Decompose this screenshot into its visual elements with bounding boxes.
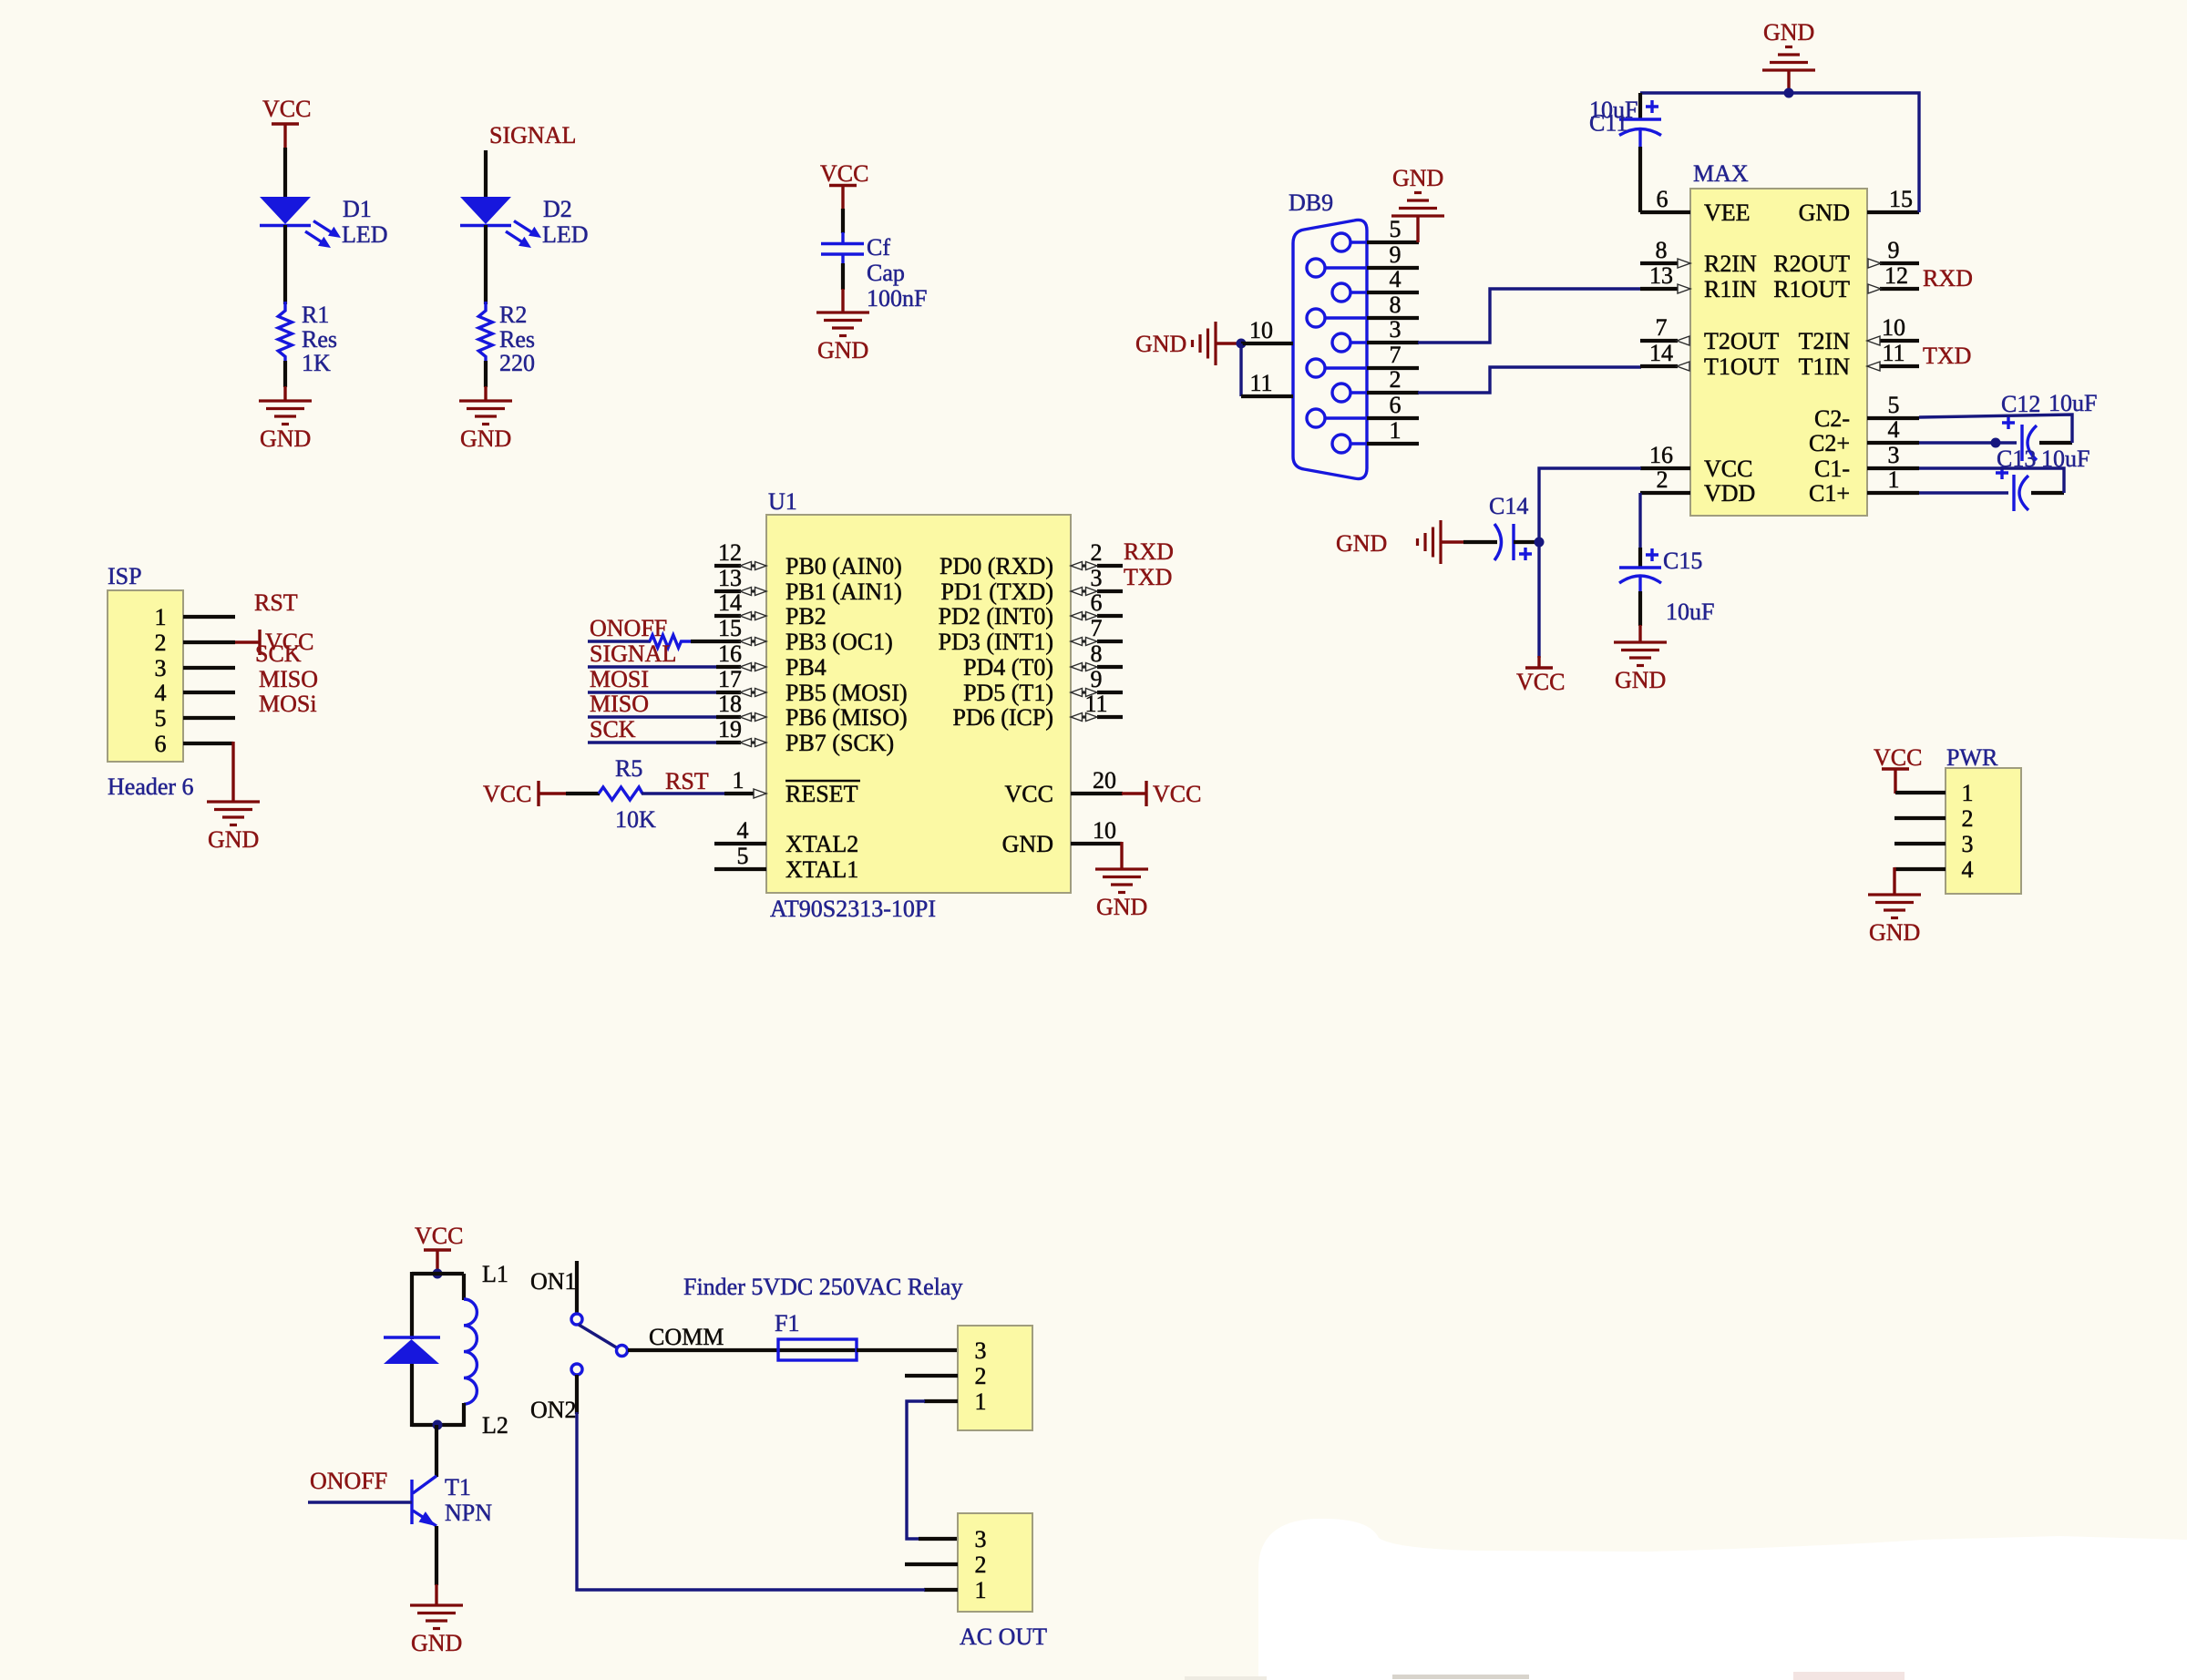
svg-text:GND: GND [1135,331,1186,357]
wire DB9 pin 3 to MAX pin 13 [1418,289,1641,343]
PWR pin 3 stub [1894,842,1946,845]
wire D1 to R1 [283,225,287,304]
svg-text:GND: GND [208,826,259,853]
svg-text:ON1: ON1 [530,1268,577,1295]
net RST wire to U1 pin 1 [642,767,766,798]
svg-text:COMM: COMM [649,1324,724,1350]
svg-text:PB7 (SCK): PB7 (SCK) [785,730,894,756]
pin 2 wire to power VCC [183,629,313,655]
svg-text:4: 4 [737,817,749,844]
svg-text:TXD: TXD [1124,564,1172,590]
wire T1 emitter to ground [435,1526,438,1605]
flyback diode [384,1272,440,1427]
capacitor C13 10uF across MAX pins 1-3 [1919,446,2089,511]
svg-text:7: 7 [1656,314,1668,341]
svg-text:L1: L1 [482,1261,508,1287]
svg-text:16: 16 [718,640,742,667]
ground GND (C15) [1614,642,1667,693]
ground GND above MAX [1762,19,1815,94]
svg-text:13: 13 [1649,262,1673,289]
svg-text:C13: C13 [1997,446,2036,472]
U1 pin 7 PD3 [939,615,1123,655]
svg-text:6: 6 [1091,589,1103,616]
node junction coil top [433,1269,443,1279]
svg-text:U1: U1 [768,488,797,515]
svg-text:2: 2 [1962,805,1974,832]
connector AC 1 [958,1326,1032,1430]
transistor T1 NPN [412,1474,492,1526]
wire R2 to GND [484,361,488,401]
U1 pin 5 XTAL1 [714,843,858,883]
svg-text:VCC: VCC [1704,456,1752,482]
svg-text:C1-: C1- [1814,456,1850,482]
svg-text:8: 8 [1091,640,1103,667]
resistor R5 10K [566,755,656,833]
DB9 pin hole circles [1307,233,1367,453]
capacitor C11 10uF [1589,93,1661,212]
svg-text:Header 6: Header 6 [108,773,194,800]
wire ON1 [575,1261,579,1313]
svg-text:PD2 (INT0): PD2 (INT0) [939,603,1053,630]
wire AC1 pin 1 to AC2 pin 3 [907,1401,925,1539]
wire ON2 to AC2 pin 1 [575,1375,579,1414]
svg-text:C2+: C2+ [1809,430,1850,456]
AC connector 2 pin 3 line [919,1537,958,1541]
U1 pin 20 VCC to power VCC [1005,767,1202,807]
svg-text:ISP: ISP [108,563,142,589]
ground GND (D1 chain) [259,401,312,452]
ground GND (D2 chain) [459,401,512,452]
svg-text:MOSI: MOSI [590,666,649,692]
svg-text:3: 3 [155,655,167,681]
switch contact ON2 [571,1364,582,1375]
U1 pin 18 PB6 / net MISO [588,691,908,731]
ground GND (PWR) [1868,895,1921,946]
svg-text:VCC: VCC [820,160,868,187]
node junction coil bottom [433,1420,443,1430]
wire R1 to GND [283,361,287,401]
power VCC (R5) [483,781,567,807]
svg-text:15: 15 [718,615,742,641]
capacitor Cf 100nF [821,232,927,312]
svg-text:9: 9 [1091,666,1103,692]
power VCC (MAX) [1516,656,1565,695]
PWR pin 2 stub [1894,816,1946,820]
svg-text:F1: F1 [775,1310,799,1337]
svg-text:T1IN: T1IN [1799,353,1851,380]
svg-text:220: 220 [499,350,535,376]
PWR pin 4 wire to ground [1894,867,1946,895]
svg-text:MISO: MISO [590,691,649,717]
node junction VCC net at C14 [1535,538,1545,548]
svg-text:PB2: PB2 [785,603,827,630]
DB9 pin 2 [1367,366,1419,393]
IC U1 AT90S2313-10PI body [766,488,1071,922]
U1 pin 2 PD0 / net RXD [939,538,1174,579]
wire COMM to fuse [628,1348,857,1352]
svg-text:LED: LED [542,221,589,248]
svg-text:VCC: VCC [1005,781,1053,807]
node junction DB9 shield [1237,339,1247,349]
svg-text:C15: C15 [1663,548,1702,574]
svg-text:XTAL2: XTAL2 [785,831,858,857]
svg-text:SCK: SCK [590,716,636,743]
U1 pin 15 PB3 / net ONOFF with series resistor [588,615,893,655]
svg-text:PWR: PWR [1946,744,1998,771]
svg-text:8: 8 [1656,237,1668,263]
svg-text:6: 6 [1390,392,1402,418]
svg-text:DB9: DB9 [1289,190,1333,216]
svg-text:MAX: MAX [1693,160,1749,187]
svg-text:PB3 (OC1): PB3 (OC1) [785,629,893,655]
svg-text:R2OUT: R2OUT [1773,251,1850,277]
power VCC (D1 chain) [262,96,311,149]
wire VCC to Cf [841,209,845,233]
svg-text:18: 18 [718,691,742,717]
svg-text:Cf: Cf [867,234,890,261]
svg-text:R5: R5 [615,755,642,782]
svg-text:T1OUT: T1OUT [1704,353,1779,380]
svg-text:T2IN: T2IN [1799,328,1851,354]
U1 pin 17 PB5 / net MOSI [588,666,908,706]
svg-text:9: 9 [1390,241,1402,268]
svg-text:1: 1 [975,1577,987,1603]
DB9 pin 4 [1367,266,1419,292]
U1 pin 9 PD5 [963,666,1123,706]
wire top rail C11 to MAX pin 15 [1640,93,1919,212]
svg-text:4: 4 [1962,856,1974,883]
svg-text:3: 3 [975,1526,987,1552]
capacitor C14 [1463,493,1542,560]
wire VCC to D1 [283,148,287,198]
svg-text:R1IN: R1IN [1704,276,1757,302]
svg-text:PB4: PB4 [785,654,827,681]
U1 pin 14 PB2 [714,589,827,630]
svg-text:GND: GND [1763,19,1814,46]
AC connector 2 pin 2 stub [905,1562,958,1566]
svg-text:12: 12 [1884,262,1908,289]
DB9 pin 1 [1367,417,1419,444]
PWR pin 1 wire from VCC [1895,791,1946,794]
svg-text:3: 3 [1888,442,1900,468]
svg-text:3: 3 [1091,565,1103,591]
inductor relay coil L1 L2 [464,1261,508,1439]
connector PWR [1946,744,2021,894]
DB9 pin 3 [1367,316,1419,343]
wire shield node down [1239,343,1242,396]
svg-text:C14: C14 [1489,493,1528,519]
svg-text:1K: 1K [302,350,331,376]
ground GND (ISP) [207,802,260,853]
svg-text:GND: GND [817,337,868,364]
svg-text:RESET: RESET [785,781,858,807]
svg-text:VEE: VEE [1704,200,1751,226]
svg-text:PD6 (ICP): PD6 (ICP) [952,704,1053,731]
svg-text:PD5 (T1): PD5 (T1) [963,680,1053,706]
wire coil bottom to T1 collector [435,1425,438,1477]
svg-text:Res: Res [302,326,337,353]
pin 3 wire SCK [183,640,302,668]
U1 pin 16 PB4 / net SIGNAL [588,640,827,681]
svg-text:10: 10 [1882,314,1905,341]
svg-text:Cap: Cap [867,260,905,286]
capacitor C12 10uF across MAX pins 4-5 [1919,390,2097,461]
node junction C12 [1991,438,2001,448]
U1 pin 10 GND to ground [1002,817,1122,869]
svg-text:PD0 (RXD): PD0 (RXD) [939,553,1053,579]
DB9 pin 6 [1367,392,1419,418]
capacitor C15 10uF [1619,548,1714,642]
svg-text:PB0 (AIN0): PB0 (AIN0) [785,553,902,579]
connector AC 2 (AC OUT) [958,1513,1047,1650]
MAX pin 16 VCC [1640,442,1752,482]
pin 4 wire MISO [183,666,318,692]
svg-text:11: 11 [1249,370,1272,396]
svg-text:PD3 (INT1): PD3 (INT1) [939,629,1053,655]
MAX pin 3 C1- [1814,442,1919,482]
svg-text:10uF: 10uF [2048,390,2097,416]
svg-text:MISO: MISO [259,666,318,692]
MAX pin 7 T2OUT [1640,314,1779,354]
connector DB9 body [1289,190,1367,479]
svg-text:4: 4 [1390,266,1402,292]
svg-text:1: 1 [733,767,744,794]
svg-text:11: 11 [1882,340,1905,366]
wire MAX pin 2 down to C15 [1638,493,1641,548]
power VCC (PWR) [1874,744,1922,794]
svg-text:T1: T1 [445,1474,471,1501]
svg-text:PD4 (T0): PD4 (T0) [963,654,1053,681]
svg-text:PB6 (MISO): PB6 (MISO) [785,704,908,731]
wire SIGNAL to D2 [484,150,488,198]
svg-text:20: 20 [1093,767,1116,794]
svg-text:4: 4 [155,680,167,706]
U1 pin 11 PD6 [952,691,1123,731]
switch contact ON1 [571,1314,582,1325]
wire D2 to R2 [484,225,488,304]
svg-text:1: 1 [1962,780,1974,806]
DB9 pin 10 shield wire [1241,317,1293,343]
ground GND (T1) [410,1605,463,1656]
svg-text:RST: RST [665,768,709,794]
net label ONOFF with wire to T1 base [308,1468,412,1502]
U1 pin 6 PD2 [939,589,1123,630]
svg-text:R2: R2 [499,302,527,328]
svg-text:GND: GND [411,1630,462,1656]
svg-text:GND: GND [1336,530,1387,557]
LED D2 [460,196,589,248]
svg-text:5: 5 [1390,216,1402,242]
svg-text:VCC: VCC [415,1223,463,1249]
svg-text:1: 1 [155,604,167,630]
U1 pin 12 PB0 [714,539,902,579]
svg-text:2: 2 [155,630,167,656]
resistor R1 1K [278,302,337,376]
svg-text:17: 17 [718,666,742,692]
MAX pin 12 R1OUT / net RXD [1773,262,1973,302]
svg-text:3: 3 [1390,316,1402,343]
svg-text:SCK: SCK [255,640,302,667]
DB9 pin 5 [1367,216,1419,242]
MAX pin 4 C2+ [1809,416,1919,456]
svg-text:TXD: TXD [1923,343,1971,369]
wire coil bottom rail [412,1423,464,1427]
svg-text:Finder 5VDC 250VAC Relay: Finder 5VDC 250VAC Relay [683,1274,962,1300]
svg-text:15: 15 [1889,186,1913,212]
ground GND above DB9 pin 5 [1391,165,1444,242]
svg-text:RXD: RXD [1124,538,1174,565]
svg-text:C11: C11 [1589,110,1627,137]
svg-text:14: 14 [718,589,742,616]
IC MAX body [1690,160,1867,516]
svg-text:7: 7 [1091,615,1103,641]
wire VCC net to MAX pin 16 [1539,468,1641,658]
svg-text:10: 10 [1093,817,1116,844]
svg-text:ONOFF: ONOFF [590,615,667,641]
switch lever [579,1325,618,1348]
svg-text:C12: C12 [2001,391,2040,417]
svg-text:VCC: VCC [1153,781,1201,807]
svg-text:GND: GND [1096,894,1147,920]
ground GND (C14) [1336,520,1464,564]
svg-text:VCC: VCC [1874,744,1922,771]
MAX pin 11 T1IN / net TXD [1799,340,1972,380]
svg-text:SIGNAL: SIGNAL [590,640,676,667]
U1 pin 19 PB7 / net SCK [588,716,894,756]
svg-text:T2OUT: T2OUT [1704,328,1779,354]
faint scan remnants bottom edge [1185,1672,1905,1680]
svg-text:2: 2 [1390,366,1402,393]
svg-text:12: 12 [718,539,742,566]
pin 6 wire to ground [183,742,233,802]
LED D1 [260,196,388,248]
svg-text:Res: Res [499,326,535,353]
svg-text:11: 11 [1084,691,1107,717]
svg-text:19: 19 [718,716,742,743]
svg-text:RST: RST [254,589,298,616]
svg-text:1: 1 [975,1388,987,1415]
DB9 pin 11 shield wire [1241,370,1293,396]
svg-text:GND: GND [1615,667,1666,693]
U1 pin 4 XTAL2 [714,817,858,857]
svg-text:PB1 (AIN1): PB1 (AIN1) [785,579,902,605]
svg-text:3: 3 [1962,831,1974,857]
svg-text:SIGNAL: SIGNAL [489,122,576,149]
ground GND (U1) [1095,869,1148,920]
U1 pin 3 PD1 / net TXD [941,564,1173,605]
svg-text:ONOFF: ONOFF [310,1468,387,1494]
DB9 pin 7 [1367,342,1419,368]
svg-text:PB5 (MOSI): PB5 (MOSI) [785,680,908,706]
svg-text:2: 2 [1657,466,1668,493]
MAX pin 9 R2OUT [1773,237,1919,277]
svg-text:R2IN: R2IN [1704,251,1757,277]
power VCC (Cf) [820,160,868,210]
svg-text:LED: LED [342,221,388,248]
pin 1 wire RST [183,589,298,617]
svg-text:3: 3 [975,1337,987,1364]
svg-text:GND: GND [260,425,311,452]
ground GND at DB9 shield [1135,322,1242,365]
AC connector 2 pin 1 line [924,1588,958,1592]
svg-text:5: 5 [1888,392,1900,418]
svg-text:GND: GND [1392,165,1443,191]
wire Cf to GND [841,263,845,312]
power VCC (relay) [415,1223,463,1274]
svg-text:2: 2 [975,1363,987,1389]
AC connector 1 pin 1 line [924,1399,958,1403]
svg-text:C2-: C2- [1814,405,1850,432]
svg-text:2: 2 [1091,539,1103,566]
svg-text:VCC: VCC [1516,669,1565,695]
svg-text:5: 5 [155,705,167,732]
svg-text:VCC: VCC [483,781,531,807]
svg-text:10: 10 [1249,317,1273,343]
U1 pin 13 PB1 [714,565,902,605]
svg-text:1: 1 [1390,417,1402,444]
connector ISP (Header 6) [108,563,194,800]
svg-text:RXD: RXD [1923,265,1973,292]
ground GND (Cf) [816,312,869,364]
white patch bottom right [1258,1519,2187,1680]
MAX pin 14 T1OUT [1640,340,1779,380]
svg-text:2: 2 [975,1552,987,1578]
svg-text:8: 8 [1390,292,1402,318]
svg-text:VDD: VDD [1704,480,1755,507]
MAX pin 2 VDD [1640,466,1755,507]
svg-text:100nF: 100nF [867,285,927,312]
wire fuse to AC connector 1 pin 3 [857,1348,958,1352]
U1 pin 8 PD4 [963,640,1123,681]
svg-text:GND: GND [1799,200,1850,226]
svg-text:6: 6 [1657,186,1668,212]
svg-text:D2: D2 [543,196,572,222]
svg-text:13: 13 [718,565,742,591]
svg-text:XTAL1: XTAL1 [785,856,858,883]
MAX pin 6 VEE [1640,186,1751,226]
svg-text:4: 4 [1888,416,1900,443]
svg-text:AT90S2313-10PI: AT90S2313-10PI [770,896,936,922]
svg-text:7: 7 [1390,342,1402,368]
DB9 pin 9 [1367,241,1419,268]
svg-text:R1OUT: R1OUT [1773,276,1850,302]
svg-text:GND: GND [1002,831,1053,857]
svg-text:6: 6 [155,731,167,757]
svg-text:1: 1 [1888,466,1900,493]
svg-text:D1: D1 [343,196,372,222]
svg-text:AC OUT: AC OUT [960,1624,1047,1650]
DB9 pin 8 [1367,292,1419,318]
MAX pin 5 C2- [1814,392,1919,432]
svg-text:NPN: NPN [445,1500,492,1526]
MAX pin 10 T2IN [1799,314,1919,354]
svg-text:GND: GND [1869,919,1920,946]
fuse F1 [775,1310,857,1360]
MAX pin 1 C1+ [1809,466,1919,507]
wire DB9 pin 2 to MAX pin 14 [1418,367,1641,393]
svg-text:5: 5 [737,843,749,869]
switch contact COMM [617,1346,628,1357]
svg-text:L2: L2 [482,1412,508,1439]
svg-text:C1+: C1+ [1809,480,1850,507]
AC connector 1 pin 2 stub [905,1374,958,1378]
svg-text:R1: R1 [302,302,329,328]
node junction top GND [1784,88,1794,98]
wire coil top rail [412,1272,464,1275]
svg-text:GND: GND [460,425,511,452]
svg-text:16: 16 [1649,442,1673,468]
svg-text:ON2: ON2 [530,1397,577,1423]
